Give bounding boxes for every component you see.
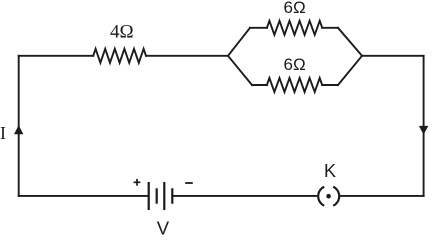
wire parallel bottom-left diagonal (228, 56, 252, 85)
wire top middle segment (146, 55, 228, 57)
battery plate short 2 (171, 188, 173, 203)
wire bottom branch left lead (252, 84, 267, 86)
svg-text:6Ω: 6Ω (284, 0, 306, 17)
svg-text:6Ω: 6Ω (284, 55, 306, 74)
wire right vertical (423, 56, 425, 196)
wire top right segment (362, 55, 424, 57)
current arrow down (right wire) (419, 126, 428, 135)
wire bottom branch right lead (322, 84, 338, 86)
key K (plug key) (318, 187, 339, 206)
svg-text:V: V (157, 217, 170, 238)
wire battery to key (172, 195, 316, 197)
resistor R2 6ohm top (267, 21, 322, 35)
battery plus sign (134, 179, 141, 186)
wire parallel bottom-right diagonal (338, 56, 362, 85)
battery plate long 2 (163, 182, 165, 210)
resistor R3 6ohm bottom (267, 78, 322, 92)
wire top left segment (19, 55, 94, 57)
battery plate short 1 (156, 188, 158, 203)
current arrow up (left wire) (14, 125, 23, 134)
resistor R1 4ohm (93, 49, 146, 63)
wire top branch left lead (250, 27, 267, 29)
svg-text:K: K (324, 161, 336, 181)
key center dot (326, 194, 331, 199)
wire parallel top-right diagonal (338, 28, 362, 56)
svg-text:I: I (0, 123, 6, 143)
wire bottom left segment (19, 195, 149, 197)
battery minus sign (185, 182, 193, 184)
wire parallel top-left diagonal (228, 28, 250, 56)
wire left vertical (18, 56, 20, 196)
battery V (149, 182, 173, 210)
battery plate long 1 (148, 182, 150, 210)
wire bottom right segment (key to corner) (341, 195, 424, 197)
svg-text:4Ω: 4Ω (110, 22, 134, 43)
wire top branch right lead (322, 27, 338, 29)
